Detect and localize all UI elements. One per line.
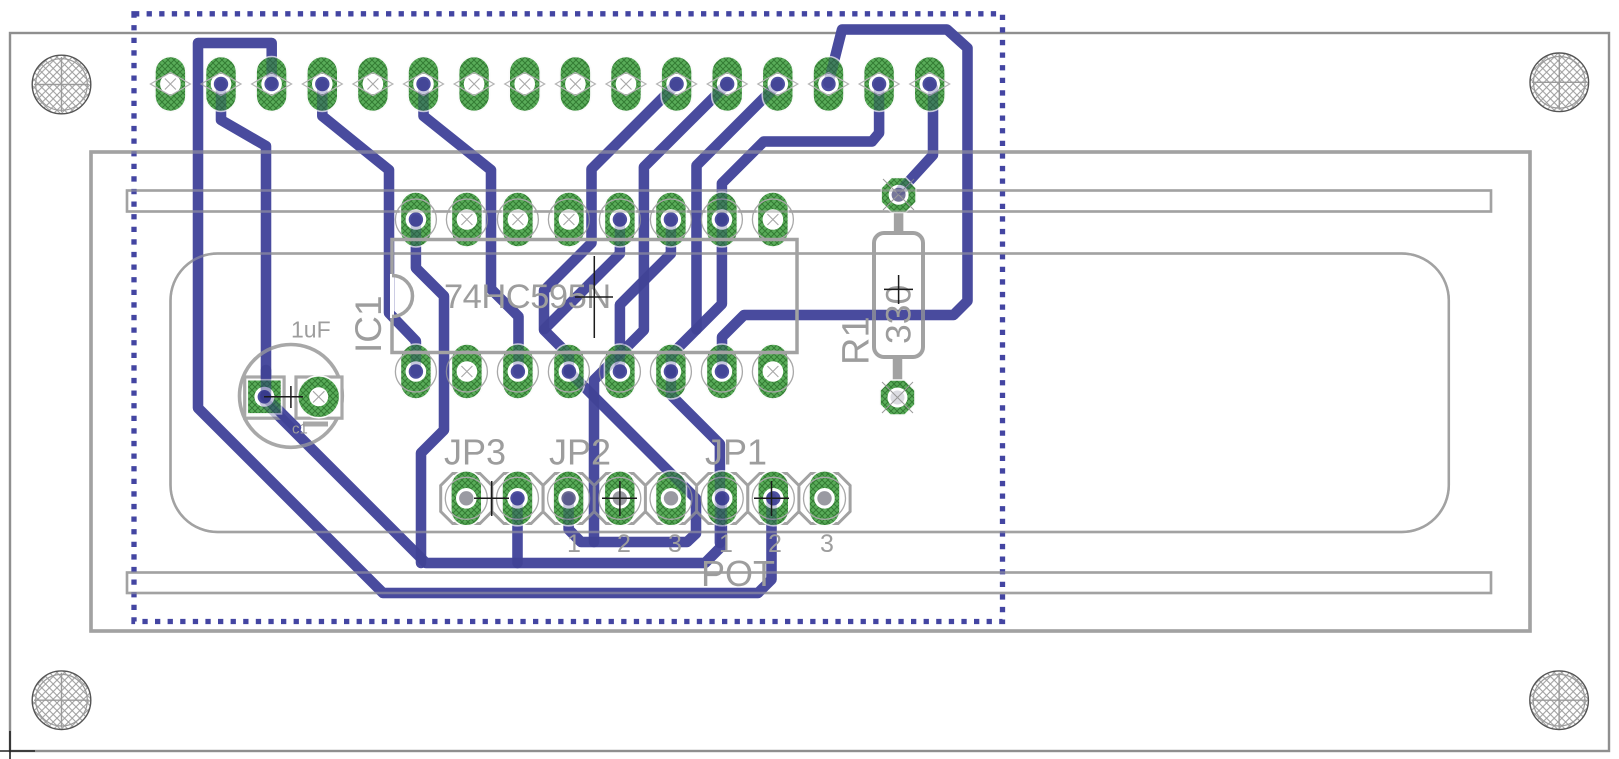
top slot outline xyxy=(127,191,1491,212)
JP1 pin 1 xyxy=(701,471,743,526)
svg-text:R1: R1 xyxy=(836,316,878,365)
wire pad2 to C1 plus xyxy=(221,84,266,397)
C1 origin cross xyxy=(264,386,303,408)
svg-text:3: 3 xyxy=(820,530,834,558)
IC1 pin 10 (top row) xyxy=(701,192,742,247)
display window rounded rectangle xyxy=(171,254,1449,533)
JP2 pin 2 xyxy=(599,471,641,526)
wire stubs over C1 courtyards xyxy=(265,370,296,428)
JP3 pin 2 xyxy=(497,471,539,526)
header pad 12 xyxy=(707,57,747,112)
JP3 origin cross xyxy=(474,481,509,516)
R1 origin cross xyxy=(884,275,913,304)
JP2 origin cross xyxy=(602,481,637,516)
JP1 pin 2 xyxy=(752,471,794,526)
wire overlay xyxy=(198,30,968,594)
wire pad12 to A bus xyxy=(594,84,727,542)
header pad 1 xyxy=(150,57,190,112)
JP2 pin 3 xyxy=(650,471,692,526)
JP1 origin cross xyxy=(754,481,789,516)
mounting hole bottom-right xyxy=(1530,671,1589,730)
mounting hole top-right xyxy=(1530,53,1589,112)
IC1 pin 5 (bottom row) xyxy=(599,344,640,399)
JP1 pin 3 xyxy=(804,471,846,526)
svg-text:POT: POT xyxy=(701,553,775,594)
IC1 pin 15 (top row) xyxy=(446,192,487,247)
header pad 9 xyxy=(555,57,595,112)
JP2 pin 1 xyxy=(548,471,590,526)
R1 pad 1 xyxy=(881,178,916,213)
JP3 pin 1 xyxy=(445,471,487,526)
header pad 13 xyxy=(758,57,798,112)
IC1 pin1 notch xyxy=(392,276,412,317)
C1 square pad (+) xyxy=(247,380,281,414)
board outline dotted dimension layer xyxy=(134,14,1003,622)
silk lines over traces xyxy=(91,152,1530,631)
IC1 pin 3 (bottom row) xyxy=(497,344,538,399)
wire pad15 to IC1 pin10 xyxy=(722,84,879,220)
IC1 pin 8 (bottom row) xyxy=(752,344,793,399)
header pad 7 xyxy=(454,57,494,112)
svg-text:c1: c1 xyxy=(292,421,308,438)
wire JP3 pin2 drop to bus xyxy=(512,498,523,563)
mounting hole bottom-left xyxy=(32,671,91,730)
svg-text:IC1: IC1 xyxy=(348,295,389,353)
LCD module inner frame xyxy=(91,152,1530,631)
origin cross bottom-left corner xyxy=(0,731,35,759)
svg-text:JP3: JP3 xyxy=(444,432,506,473)
IC1 body outline xyxy=(392,240,797,353)
wire pad16 to R1 pad1 xyxy=(901,84,933,190)
IC1 pin 1 (bottom row) xyxy=(395,344,436,399)
wire IC1 pin11 spur to pin5 xyxy=(620,220,671,372)
wire IC1 pin12 spur to pin4 net xyxy=(545,220,620,330)
header pad 6 xyxy=(404,57,444,112)
wire IC1 pin6 to JP1 pin1 xyxy=(671,372,720,544)
wire pad3 to JP1 pin2 outer loop xyxy=(198,43,772,593)
svg-text:2: 2 xyxy=(617,530,631,558)
R1 pad 2 xyxy=(880,380,915,415)
header pad 4 xyxy=(302,57,342,112)
svg-text:1: 1 xyxy=(567,530,581,558)
svg-text:3: 3 xyxy=(668,530,682,558)
svg-text:JP1: JP1 xyxy=(705,432,767,473)
IC1 pin 9 (top row) xyxy=(752,192,793,247)
wire IC1 pin16 to bus xyxy=(416,220,444,564)
IC1 pin 16 (top row) xyxy=(395,192,436,247)
wire pad6 to IC1 pin3 xyxy=(424,84,519,372)
C1 round pad xyxy=(298,376,340,418)
svg-text:JP2: JP2 xyxy=(549,432,611,473)
IC1 pin 6 (bottom row) xyxy=(650,344,691,399)
IC1 pin 11 (top row) xyxy=(650,192,691,247)
wire pad11 to IC1 pin4 xyxy=(544,84,677,372)
header pad 15 xyxy=(859,57,899,112)
header pad 10 xyxy=(606,57,646,112)
bottom slot outline xyxy=(127,573,1491,594)
header pad 5 xyxy=(353,57,393,112)
wire pad4 to IC1 pin1 xyxy=(322,84,416,372)
IC1 pin 13 (top row) xyxy=(548,192,589,247)
svg-text:1: 1 xyxy=(719,530,733,558)
wire IC1 pin4 diagonal to JP2 pin1 xyxy=(569,372,696,543)
capacitor C1 silkscreen circle xyxy=(240,345,343,448)
IC1 pin 12 (top row) xyxy=(599,192,640,247)
header pad 16 xyxy=(910,57,950,112)
wire C1 bus to JP1 pin1 xyxy=(265,397,722,564)
header pad 8 xyxy=(505,57,545,112)
IC1 pin 2 (bottom row) xyxy=(446,344,487,399)
mounting hole top-left xyxy=(32,55,91,114)
header pad 3 xyxy=(252,57,292,112)
C1 pad courtyard squares xyxy=(245,377,284,418)
resistor R1 body xyxy=(874,233,923,357)
svg-text:2: 2 xyxy=(768,530,782,558)
IC1 pin 4 (bottom row) xyxy=(548,344,589,399)
IC1 pin 7 (bottom row) xyxy=(701,344,742,399)
wire IC1 pin10 spur to pin6 xyxy=(671,220,722,372)
header pad 14 xyxy=(809,57,849,112)
header pad 11 xyxy=(657,57,697,112)
svg-text:1uF: 1uF xyxy=(291,317,331,343)
IC1 origin cross xyxy=(575,256,613,338)
wire pad13 to IC1 pin10 column xyxy=(697,84,778,330)
wire pad14 right loop to IC1 pin7 xyxy=(722,30,968,372)
resistor R1 leads xyxy=(898,194,899,398)
JP3 JP2 JP1 silkscreen outline xyxy=(441,474,850,524)
header pad 2 xyxy=(201,57,241,112)
C1 polarity bar xyxy=(303,422,328,427)
IC1 pin 14 (top row) xyxy=(497,192,538,247)
